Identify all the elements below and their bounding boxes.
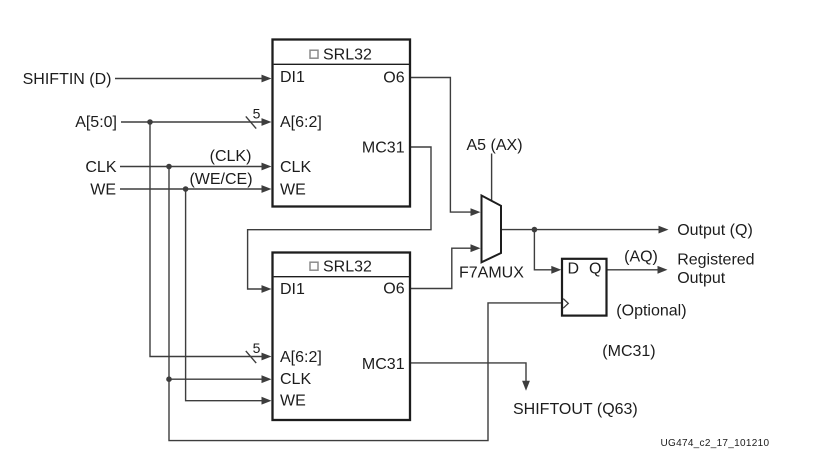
svg-text:5: 5 (253, 340, 261, 356)
svg-text:SRL32: SRL32 (323, 46, 372, 63)
svg-text:D: D (568, 260, 580, 277)
svg-text:Registered: Registered (677, 252, 754, 269)
svg-text:MC31: MC31 (362, 139, 405, 156)
svg-text:O6: O6 (383, 281, 404, 298)
svg-text:UG474_c2_17_101210: UG474_c2_17_101210 (661, 438, 770, 449)
svg-text:DI1: DI1 (280, 281, 305, 298)
svg-text:WE: WE (280, 392, 306, 409)
svg-text:CLK: CLK (280, 371, 311, 388)
svg-text:MC31: MC31 (362, 356, 405, 373)
svg-text:F7AMUX: F7AMUX (459, 265, 524, 282)
svg-text:(CLK): (CLK) (210, 148, 252, 165)
svg-text:Q: Q (589, 260, 601, 277)
svg-text:SHIFTIN (D): SHIFTIN (D) (23, 71, 112, 88)
svg-text:Output: Output (677, 270, 726, 287)
svg-text:(WE/CE): (WE/CE) (189, 171, 252, 188)
svg-text:DI1: DI1 (280, 69, 305, 86)
svg-text:WE: WE (90, 181, 116, 198)
svg-text:SHIFTOUT (Q63): SHIFTOUT (Q63) (513, 401, 638, 418)
svg-text:5: 5 (253, 106, 261, 122)
svg-text:(AQ): (AQ) (624, 249, 658, 266)
svg-text:O6: O6 (383, 69, 404, 86)
svg-text:Output (Q): Output (Q) (677, 222, 753, 239)
svg-text:CLK: CLK (280, 159, 311, 176)
svg-text:A[6:2]: A[6:2] (280, 114, 322, 131)
svg-text:A[6:2]: A[6:2] (280, 349, 322, 366)
svg-text:SRL32: SRL32 (323, 258, 372, 275)
svg-text:(Optional): (Optional) (616, 303, 686, 320)
svg-text:CLK: CLK (85, 159, 116, 176)
svg-text:A[5:0]: A[5:0] (75, 114, 117, 131)
svg-text:(MC31): (MC31) (602, 343, 655, 360)
svg-text:WE: WE (280, 181, 306, 198)
svg-text:A5 (AX): A5 (AX) (467, 137, 523, 154)
